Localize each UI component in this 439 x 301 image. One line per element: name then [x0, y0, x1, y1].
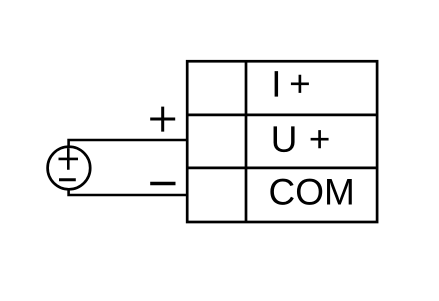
terminal block outline — [187, 61, 377, 222]
wire positive from source top to terminal block — [69, 140, 188, 147]
terminal block inner column divider — [245, 61, 248, 222]
terminal block row divider 1 — [187, 114, 377, 117]
wire negative from source bottom to terminal block — [69, 189, 188, 195]
terminal label I+ — [275, 71, 309, 96]
polarity label - on negative wire — [150, 182, 175, 186]
voltage source V1 — [48, 147, 91, 190]
terminal label U+ — [274, 126, 329, 152]
terminal label COM — [270, 179, 351, 205]
polarity label + on positive wire — [150, 107, 175, 132]
terminal block row divider 2 — [187, 167, 377, 170]
